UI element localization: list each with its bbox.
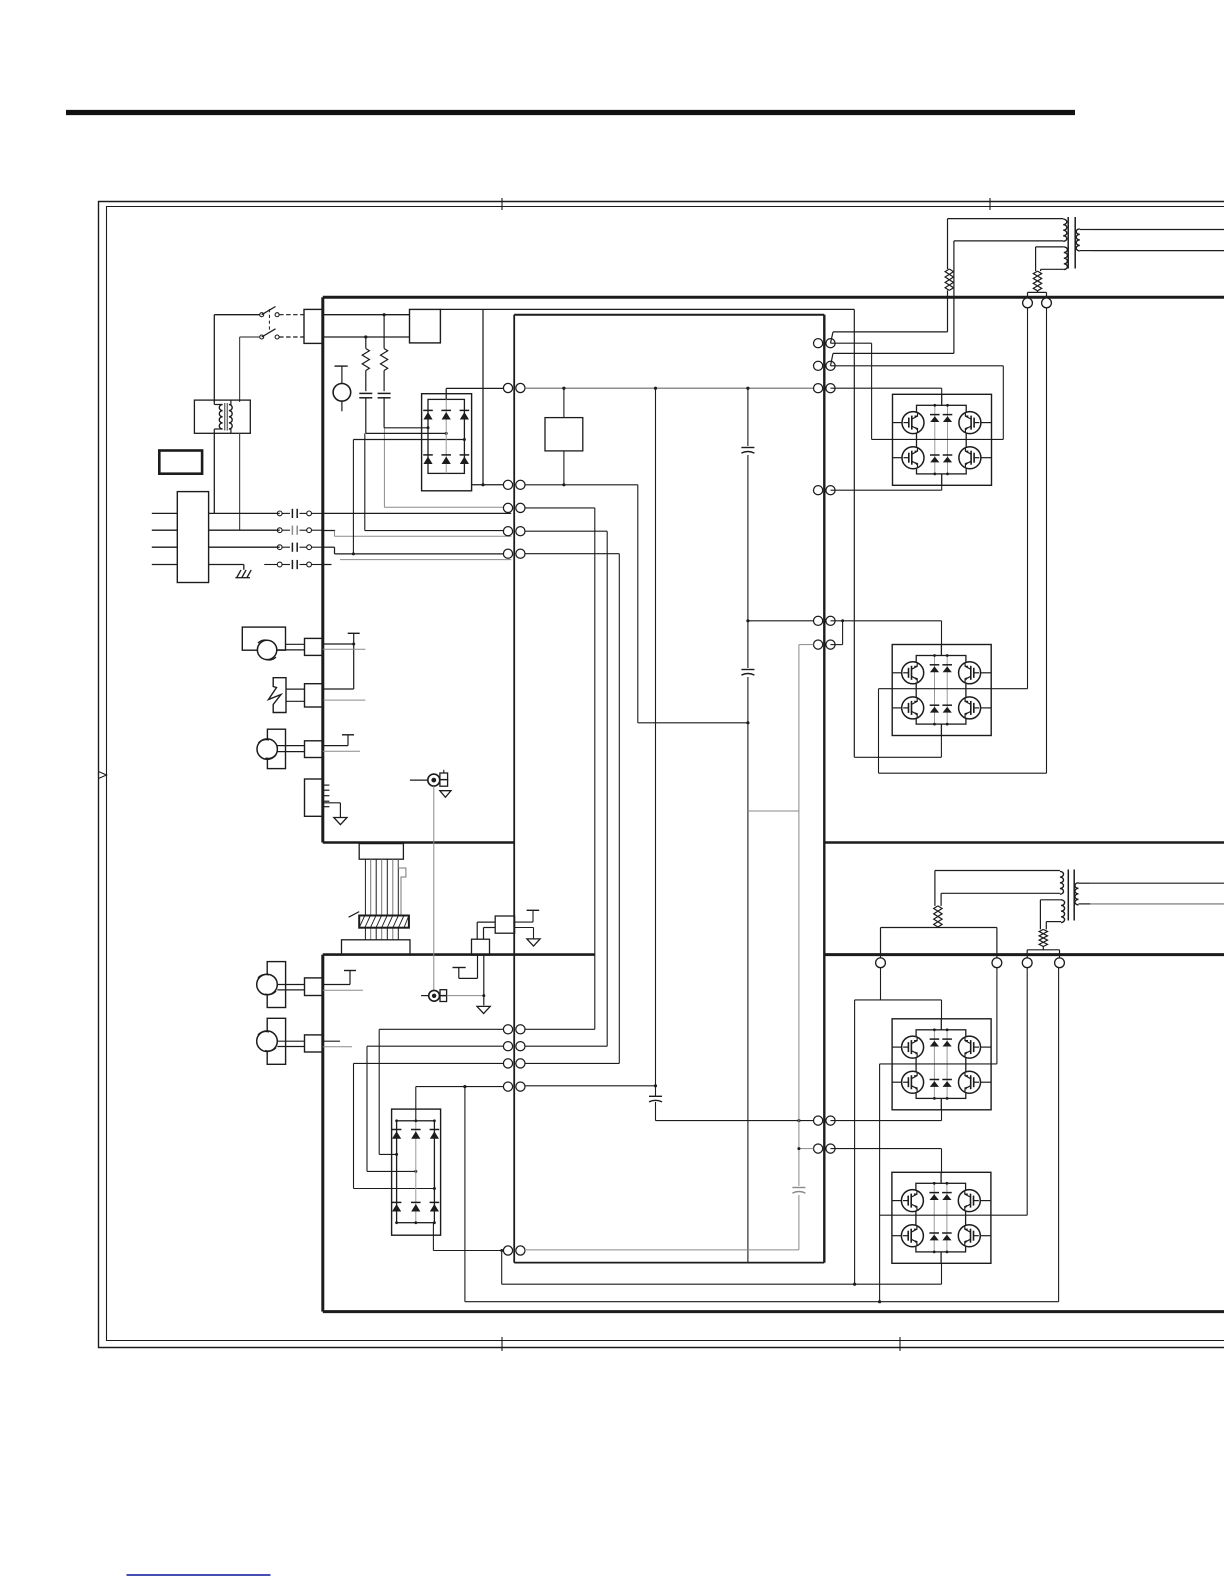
thermal protector TH1 bbox=[269, 678, 305, 713]
wire: U2 right T-stub bbox=[515, 910, 540, 922]
power switch SW1 (2-pole) bbox=[260, 307, 279, 340]
wire: CN2 row4 to earth bbox=[209, 565, 244, 570]
lower power unit block border bbox=[323, 955, 1224, 1312]
wire: pair CN-R3 to Q1 top bbox=[831, 388, 942, 394]
pump motor PM2 bbox=[257, 962, 305, 1008]
wire: Q2 midrail left drop to pin P2 bbox=[879, 308, 1047, 773]
wire: upper control bus bbox=[440, 308, 854, 310]
transformer T2 primary winding 2 bbox=[1061, 900, 1065, 923]
wire: pair K nets bbox=[433, 1223, 799, 1285]
board connector pair CN-K bbox=[503, 1246, 512, 1255]
wire: Q1 midrail bbox=[872, 438, 1004, 440]
frame tick bottom-right bbox=[899, 1337, 901, 1351]
wire: DC- drop to cap bus bbox=[638, 485, 748, 723]
power relay box RY1 bbox=[410, 309, 441, 343]
inductor L3 bbox=[934, 906, 942, 927]
transformer T1 primary winding 1 bbox=[1063, 219, 1067, 241]
wire: lower return bus bbox=[465, 968, 1059, 1303]
wire: snubber feed to pair CN-C bbox=[384, 428, 503, 508]
wire: relay sense riser bbox=[482, 309, 484, 484]
transformer T1 secondary winding bbox=[1076, 229, 1080, 251]
outer border frame bbox=[99, 202, 1224, 1348]
feed-through capacitor C13 bbox=[277, 545, 282, 550]
wire: T2 primary2 leads bbox=[1040, 900, 1061, 930]
wire: grommet link bbox=[433, 786, 435, 991]
capacitor C23 on HV bus bbox=[741, 668, 754, 677]
wire: L3 split to pins bbox=[881, 927, 997, 958]
chassis ground G3 bbox=[527, 939, 540, 946]
wire: row4 stub bbox=[323, 564, 332, 566]
wire: T2 primary1 top lead bbox=[935, 871, 1060, 906]
wire: HV bus vertical bbox=[746, 388, 749, 1262]
wire: L4 split to pins bbox=[1027, 947, 1059, 959]
wire: row2 to jog bbox=[323, 530, 335, 532]
wire: L1 to pair CN-R1 bbox=[831, 290, 948, 343]
transformer T1 primary winding 2 bbox=[1064, 247, 1068, 270]
connector box CN-PM1 bbox=[305, 741, 323, 758]
wire: pin P3 to Q3 top bbox=[855, 968, 942, 1019]
ribbon cable header CN4 bbox=[359, 844, 403, 860]
wire: pair H to DB2 in3 bbox=[354, 1063, 504, 1190]
inductor L4 bbox=[1039, 929, 1047, 946]
capacitor C21 on bus bbox=[649, 1086, 662, 1121]
pin P3 bbox=[876, 958, 886, 968]
input connector CN2 bbox=[177, 492, 208, 583]
wire: Q1 bottom to pair CN-R4 bbox=[831, 485, 942, 490]
wire: pair CN-R6 net bbox=[799, 621, 843, 645]
wire: CN2 to feed-through row2 bbox=[209, 529, 280, 531]
wire: Q3 bottom to pair CN-J bbox=[831, 1110, 942, 1121]
wire: pair F/G/H right side steps bbox=[525, 1029, 619, 1063]
wire: T1 primary1 top lead bbox=[948, 219, 1064, 269]
wire: gray drop from pair CN-F2 bbox=[798, 645, 800, 1250]
feed-through capacitor C14 bbox=[264, 560, 311, 569]
wire: control drop B bbox=[854, 1000, 856, 1284]
feed-through capacitor C11 bbox=[277, 511, 282, 516]
cable grommet FB3 bbox=[421, 990, 485, 1002]
ribbon cable wires bbox=[365, 859, 406, 940]
wire: U3 bracket bbox=[453, 955, 478, 978]
board connector pair CN-R4 bbox=[814, 486, 823, 495]
board connector pair CN-C bbox=[503, 503, 512, 512]
wire: pair F to rectifier DB2 in1 bbox=[379, 1029, 503, 1156]
inductor L1 bbox=[945, 269, 953, 290]
IGBT H-bridge module Q4 bbox=[892, 1172, 991, 1263]
transformer T2 secondary winding bbox=[1075, 883, 1079, 905]
digital controller board outline bbox=[514, 315, 824, 1263]
wire: CN2 to feed-through row3 bbox=[209, 546, 280, 548]
board connector pair CN-F bbox=[503, 1025, 512, 1034]
wire: AC input 3 to rectifier DB1 bbox=[353, 438, 466, 441]
wire: switch pole2 to filter bbox=[240, 337, 260, 402]
wire: T1 primary2 leads bbox=[1036, 247, 1064, 271]
wire: pair CN-J2 to Q4 top bbox=[831, 1149, 942, 1173]
wire: PM3 stub bbox=[323, 1041, 352, 1047]
ferrite shield band FB2 bbox=[349, 912, 409, 928]
wire: snubber2 drop to pair CN-D bbox=[365, 433, 504, 530]
inductor L2 bbox=[1033, 271, 1041, 291]
connector box CN-TH1 bbox=[305, 684, 323, 707]
board connector pair CN-B bbox=[503, 480, 512, 489]
pin P6 bbox=[1055, 958, 1065, 968]
wire: midrail shared left riser bbox=[879, 1064, 881, 1302]
wire: pair CN-R1 to bridge Q1 midrail riser bbox=[831, 343, 872, 439]
wire: DB1 DC+ bus to pair CN-A bbox=[446, 387, 503, 389]
wire: feedthrough into block bbox=[312, 513, 323, 564]
wire: row1 into board edge bbox=[323, 512, 511, 514]
wire: U2 left leads bbox=[477, 922, 495, 939]
frame tick top-right bbox=[989, 198, 991, 210]
wire: pair C to vert bus1 bbox=[525, 508, 595, 1029]
board connector pair CN-R1 bbox=[814, 339, 823, 348]
pilot lamp PL1 bbox=[333, 366, 351, 411]
terminal box CN-AC on block edge bbox=[304, 309, 323, 343]
wire: T1 secondary output leads bbox=[1080, 230, 1224, 251]
transformer T2 core bbox=[1068, 870, 1074, 921]
wire: AC input 1 to rectifier DB1 bbox=[384, 426, 429, 429]
wire: T1 primary1 bottom lead bbox=[831, 241, 1064, 366]
resistor R1 bbox=[362, 335, 369, 391]
connector box CN-PM3 bbox=[305, 1035, 323, 1052]
chassis ground G2 bbox=[440, 791, 451, 798]
capacitor C2 bbox=[378, 393, 391, 427]
frame tick top-center bbox=[501, 198, 503, 210]
wire: pair I DC+ net bbox=[416, 1085, 504, 1302]
pump motor PM1 bbox=[257, 729, 305, 768]
wire: snubber bus vertical bbox=[654, 388, 657, 1087]
ribbon cable receptacle CN5 bbox=[342, 940, 411, 955]
wire: pair J2 gray link bbox=[797, 1147, 813, 1150]
frame tick bottom-center bbox=[501, 1337, 503, 1351]
capacitor C22 on HV bus bbox=[741, 446, 754, 455]
capacitor C24 on gray drop bbox=[792, 1186, 805, 1195]
capacitor C1 bbox=[359, 393, 372, 433]
wire: control bus drop A bbox=[853, 309, 855, 757]
bridge rectifier DB1 bbox=[422, 394, 472, 491]
wire: AC3 drop to pair CN-E net bbox=[352, 440, 355, 556]
wire: row2 gray return bbox=[335, 531, 512, 537]
board connector pair CN-R6 bbox=[814, 640, 823, 649]
board connector pair CN-A bbox=[503, 383, 512, 392]
interface box U2 bbox=[495, 916, 514, 933]
wire: pair E to vert bus3 bbox=[525, 554, 620, 1064]
chassis ground G4 bbox=[477, 1006, 490, 1013]
pin P4 bbox=[992, 958, 1002, 968]
wire: L2 split to pins bbox=[1028, 291, 1047, 299]
interface box U3 bbox=[472, 939, 490, 955]
wire: K1 taps bbox=[562, 388, 565, 486]
relay box K1 on board bbox=[545, 418, 583, 451]
wire: U3 drop to ground bbox=[483, 955, 485, 1005]
wire: T2 primary1 bottom lead bbox=[941, 893, 1060, 906]
wire: HV bus gray link bbox=[748, 810, 799, 812]
bridge rectifier DB2 bbox=[392, 1109, 441, 1235]
pin P1 bbox=[1023, 298, 1033, 308]
transformer T1 core bbox=[1068, 217, 1075, 269]
board connector pair CN-R3 bbox=[814, 384, 823, 393]
transformer T2 primary winding 1 bbox=[1060, 871, 1064, 894]
fan motor FM1 bbox=[242, 627, 304, 660]
board connector pair CN-I bbox=[503, 1082, 512, 1091]
wire: pair CN-R5 net bbox=[748, 619, 942, 644]
board connector pair CN-R5 bbox=[814, 616, 823, 625]
wire: switch to terminal box bbox=[279, 315, 304, 337]
frame tick left-middle bbox=[99, 772, 107, 779]
earth ground E1 bbox=[235, 570, 251, 578]
IGBT H-bridge module Q3 bbox=[892, 1019, 991, 1110]
board connector pair CN-D bbox=[503, 527, 512, 536]
resistor R2 bbox=[381, 313, 388, 391]
wire: CN2 stub leads bbox=[152, 513, 178, 564]
connector box CN-PM2 bbox=[305, 978, 323, 996]
wire: Q3 midrail bbox=[880, 1063, 997, 1065]
wire: Q2 midrail to pin P1 bbox=[879, 308, 1028, 689]
wire: AC input 2 to rectifier DB1 bbox=[366, 432, 448, 435]
wire: PM2 net with T-stub bbox=[323, 971, 363, 991]
wire: CN2 to feed-through row1 bbox=[209, 512, 280, 514]
wire: T2 secondary output leads bbox=[1079, 883, 1224, 904]
wire: filter output 2 bbox=[239, 433, 241, 530]
line filter transformer T3 bbox=[194, 400, 250, 433]
board connector pair CN-E bbox=[503, 549, 512, 558]
board connector pair CN-J2 bbox=[814, 1144, 823, 1153]
wire: DB1 DC- to pair CN-B bbox=[472, 483, 503, 486]
wire: row3 jog to pair CN-E bbox=[323, 547, 504, 554]
wire: pin P4 to Q3 midrail bbox=[996, 968, 998, 1064]
page title rule bbox=[66, 110, 1075, 115]
cable grommet FB1 bbox=[410, 770, 448, 786]
wire: U2 right to ground bbox=[515, 928, 534, 939]
wire: row3 gray return bbox=[340, 559, 511, 561]
wire: switch pole1 to filter bbox=[214, 315, 259, 402]
upper power unit block border bbox=[323, 297, 1224, 842]
wire: Q4 midrail bbox=[880, 968, 1028, 1215]
pin P2 bbox=[1042, 298, 1052, 308]
wire: DB1 DC+ riser bbox=[445, 388, 447, 399]
wire: cap bus to pair CN-J bbox=[656, 1119, 814, 1122]
wire: Q2 bottom return bbox=[854, 735, 941, 757]
pin P5 bbox=[1022, 958, 1032, 968]
wire: pair CN-R2 to Q1 midrail riser bbox=[831, 366, 1004, 440]
multi-pin connector CN3 bbox=[305, 779, 341, 818]
wire: pair I to cap bus bbox=[525, 1085, 656, 1087]
connector box CN-FM1 bbox=[305, 638, 323, 655]
IGBT H-bridge module Q1 bbox=[893, 394, 992, 485]
feed-through capacitor C12 bbox=[277, 528, 282, 533]
wire: DC- net on board bbox=[525, 484, 638, 486]
name-plate label box bbox=[159, 451, 202, 474]
wire: pair D to vert bus2 bbox=[525, 531, 607, 1046]
wire: terminal box to relay box bbox=[323, 315, 410, 337]
footer link underline bbox=[127, 1574, 271, 1576]
chassis ground G1 bbox=[334, 818, 347, 825]
wire: filter output 1 bbox=[213, 433, 215, 513]
pump motor PM3 bbox=[257, 1018, 305, 1064]
wire: Q4 bottom bus bbox=[502, 1264, 942, 1286]
board connector pair CN-J bbox=[814, 1116, 823, 1125]
wire: DC+ net on board bbox=[525, 387, 814, 390]
wire: FM1 net with T-stub bbox=[323, 633, 366, 700]
wire: PM1 net with T-stub bbox=[323, 735, 360, 751]
wire: pair G to DB2 in2 bbox=[367, 1046, 503, 1173]
inner border frame bbox=[107, 207, 1224, 1341]
board connector pair CN-R2 bbox=[814, 361, 823, 370]
board connector pair CN-G bbox=[503, 1042, 512, 1051]
IGBT H-bridge module Q2 bbox=[892, 645, 991, 736]
board connector pair CN-H bbox=[503, 1059, 512, 1068]
